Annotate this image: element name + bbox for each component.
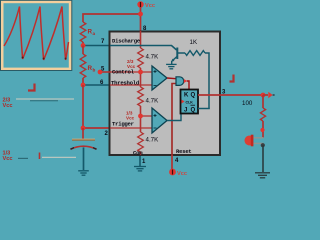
transistor Q1 [176,48,178,60]
svg-text:Threshold: Threshold [111,80,139,87]
svg-text:CLK: CLK [186,101,194,105]
svg-text:Trigger: Trigger [112,121,134,128]
ground (capacitor) [78,170,89,172]
wire: Qbar out [198,108,210,110]
output arrow connector [263,94,268,96]
resistor R1 4.7K [138,48,144,68]
wire: reset pin 4 to Vcc [171,155,173,169]
capacitor C top plate [72,138,95,140]
ground (transistor emitter) [166,63,177,65]
svg-text:Reset: Reset [176,148,192,155]
oscilloscope trace window [0,0,72,71]
wire: 1K to Qbar riser [205,53,209,109]
wire: reset riser [172,84,176,156]
scope probe marker B [230,75,234,82]
pin 1 wire to ground [139,156,141,166]
svg-text:Vcc: Vcc [145,3,155,9]
svg-text:Vcc: Vcc [3,103,13,109]
resistor 1K [185,51,205,56]
resistor R2 4.7K [138,87,144,106]
resistor R3 4.7K [138,132,144,152]
flip-flop U2 [181,90,199,114]
ground (LED) [255,172,270,174]
wire: top rail [83,14,141,22]
waveform trough accents [22,57,24,59]
wire: 1/3 tap to comparator2 plus [141,115,153,117]
1/3 Vcc reference line [18,157,28,159]
wire: comparator2 out to flip-flop J [167,114,181,121]
wire: comparator1 out to gate [167,77,176,80]
capacitor C bottom plate [71,146,97,149]
capacitor voltage waveform [4,7,69,61]
wire: discharge line [110,46,177,51]
wire: gate out to flip-flop [187,81,189,89]
wire: pin8 into divider [140,31,142,48]
IC U1 555 body [110,32,221,156]
svg-text:1K: 1K [190,39,198,46]
wire: junction down to capacitor [82,128,84,139]
wire: down to trigger node [82,85,84,128]
svg-text:J: J [184,108,187,114]
node: top rail junction [138,12,143,17]
svg-text:Discharge: Discharge [112,38,141,45]
wire: trigger to comparator2 minus [110,127,152,129]
pin 5 stub wire [100,71,110,73]
wire: threshold to comparator1 minus [110,84,152,86]
wire: LED to ground [262,145,264,172]
resistor 100 [260,108,265,121]
node: 2/3 Vcc tap [138,70,143,75]
svg-text:b: b [93,68,96,73]
svg-text:Com: Com [133,150,143,157]
LED D1 body [244,136,251,146]
svg-text:Q: Q [191,108,196,114]
wire: pin 6 threshold [83,84,110,86]
node: output junction [261,93,266,98]
wire: Vcc stub [140,7,142,14]
svg-text:K: K [184,93,189,99]
node: trigger junction [81,126,86,131]
svg-text:a: a [93,31,96,36]
svg-text:4.7K: 4.7K [146,137,160,144]
wire: control / comparator1 plus [110,71,152,73]
resistor Rb [82,46,84,55]
svg-text:Vcc: Vcc [3,156,13,162]
svg-text:Vcc: Vcc [126,116,135,121]
svg-text:4.7K: 4.7K [146,98,160,105]
wire: Q output to pin 3 [198,94,263,96]
pin 5 terminal dot [98,70,103,75]
wire: base to 1K [177,52,185,54]
wire: trigger junction to pin 2 [83,127,110,129]
op-amp comparator 1 [152,66,167,90]
2/3 Vcc reference line [16,98,74,100]
op-amp comparator 2 [152,108,167,133]
svg-text:Q: Q [191,93,196,99]
svg-text:4.7K: 4.7K [146,54,160,61]
Vcc power symbol (bottom) [169,169,176,176]
node: LED anode dot [260,128,264,132]
wire: capacitor to ground [83,147,85,170]
wire: rail junction to pin 8 [140,14,142,31]
logic gate [176,77,184,86]
wire: pin 7 discharge [83,45,110,47]
svg-text:Control: Control [112,69,135,76]
svg-text:Vcc: Vcc [127,64,136,69]
node: LED cathode dot [261,143,265,147]
Vcc power symbol (top) [137,1,143,7]
svg-text:Vcc: Vcc [177,171,187,177]
wire: 100 ohm to LED [262,121,264,138]
LED D1 leads [253,137,264,139]
wire: junction down to 100 ohm [262,95,264,108]
svg-text:100: 100 [242,100,253,107]
node: 1/3 Vcc tap [138,114,143,119]
scope probe marker A [28,84,35,91]
node: pin6 junction [81,83,86,88]
node: pin7 junction [81,43,86,48]
ground (pin 1) [134,166,146,168]
resistor Ra [80,22,86,42]
